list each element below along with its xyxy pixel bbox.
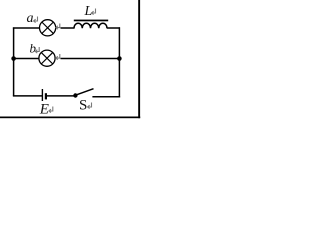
cell border right	[138, 0, 140, 118]
wire: right vertical	[118, 27, 120, 97]
switch S blade	[77, 89, 94, 95]
wire: top branch left segment	[13, 27, 39, 29]
lamp a	[40, 20, 56, 36]
wire: top branch right segment	[107, 27, 120, 29]
paragraph mark after S	[88, 103, 92, 109]
paragraph mark after b	[35, 47, 39, 53]
battery E short plate	[45, 93, 47, 99]
wire: left vertical	[13, 27, 15, 96]
paragraph mark after E	[49, 107, 53, 113]
svg-text:S: S	[79, 98, 87, 114]
svg-text:a: a	[27, 11, 34, 26]
wire: bottom branch middle segment	[47, 95, 74, 97]
paragraph mark right of lamp b	[56, 54, 60, 60]
node: left junction	[11, 56, 16, 61]
wire: top branch middle segment	[61, 27, 75, 29]
wire: bottom branch right segment	[92, 96, 120, 98]
lamp b	[39, 50, 55, 66]
svg-text:b: b	[30, 41, 37, 56]
inductor L coil	[74, 23, 107, 28]
svg-text:L: L	[84, 4, 93, 19]
paragraph mark after L	[92, 9, 96, 15]
paragraph mark right of lamp a	[56, 24, 60, 30]
battery E long plate	[41, 89, 43, 101]
wire: bottom branch left segment	[13, 95, 43, 97]
svg-text:E: E	[39, 102, 49, 118]
cell border bottom	[0, 117, 140, 119]
switch S pivot dot	[73, 93, 77, 97]
wire: middle branch left segment	[14, 58, 39, 60]
wire: middle branch right segment	[61, 58, 120, 60]
inductor L core line	[74, 20, 108, 22]
node: right junction	[117, 56, 122, 61]
paragraph mark after a	[34, 17, 38, 23]
